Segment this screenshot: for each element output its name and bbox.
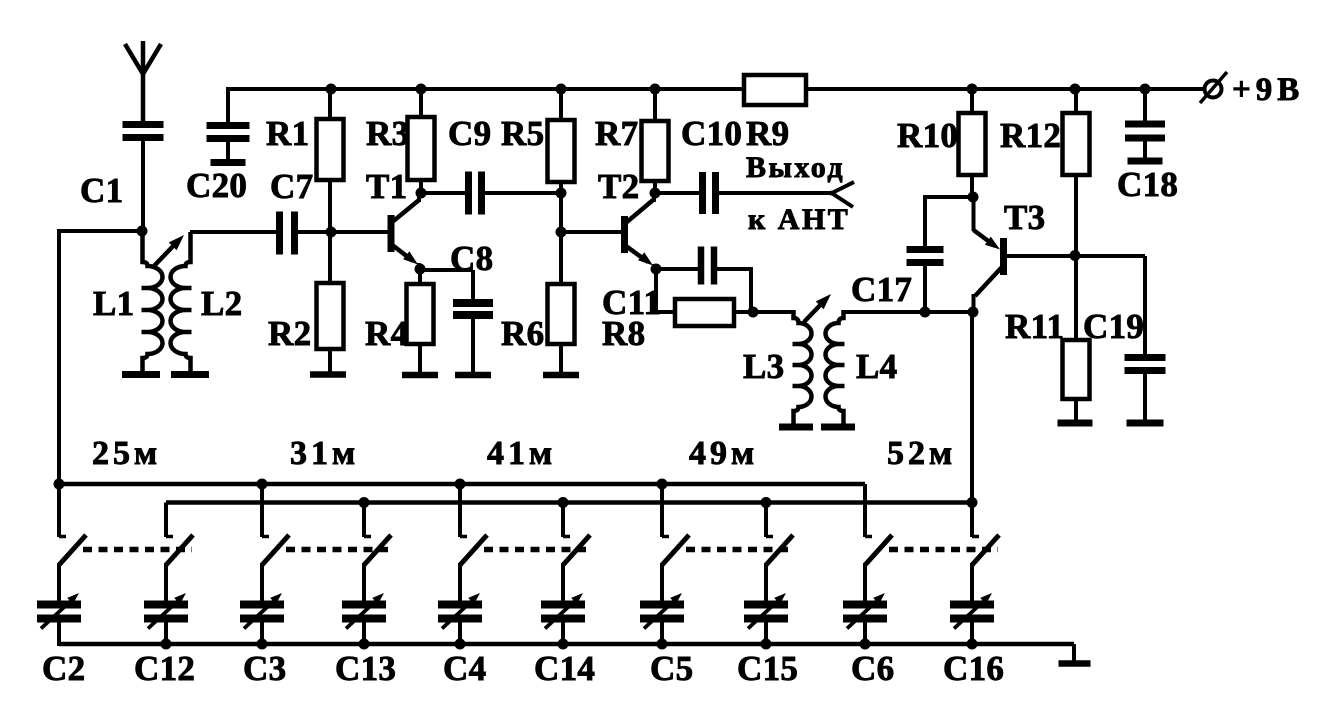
junction T3 base R12 R11 — [1070, 250, 1081, 261]
svg-text:C1: C1 — [80, 171, 123, 210]
svg-text:49м: 49м — [689, 435, 758, 472]
band bus 2 — [166, 500, 972, 505]
junction T1 collector C9 — [416, 188, 427, 199]
junction bottom bus x=460 — [455, 639, 466, 650]
svg-text:C10: C10 — [681, 114, 742, 153]
resistor R8 — [654, 267, 658, 312]
switch S1b and variable capacitor C12 — [164, 503, 168, 538]
junction T3 collector bottom — [968, 307, 979, 318]
transistor T3 — [1000, 238, 1007, 275]
junction bus1 x=662 — [657, 479, 668, 490]
switch S4a and variable capacitor C5 — [660, 484, 664, 537]
resistor R7 — [653, 89, 657, 121]
svg-text:C15: C15 — [737, 649, 798, 688]
svg-text:к АНТ: к АНТ — [748, 203, 850, 236]
junction rail R10 — [967, 84, 978, 95]
resistor R3 — [419, 89, 423, 117]
svg-text:R11: R11 — [1005, 307, 1064, 346]
svg-text:R6: R6 — [501, 314, 544, 353]
junction bus2 x=972 — [967, 497, 978, 508]
junction C9 R5 — [556, 188, 567, 199]
wire C17 top to T3 emitter node — [925, 195, 973, 199]
svg-text:T3: T3 — [1004, 198, 1045, 237]
capacitor C11 — [656, 267, 699, 271]
resistor R11 — [1074, 256, 1078, 340]
svg-text:R5: R5 — [501, 114, 544, 153]
svg-text:R2: R2 — [268, 314, 311, 353]
band bus 1 — [59, 482, 865, 487]
svg-text:C16: C16 — [943, 649, 1004, 688]
resistor R4 — [418, 269, 422, 284]
switch gang link S4 — [686, 547, 792, 553]
junction R10 C17 T3 emitter — [968, 192, 979, 203]
output fork to antenna — [830, 182, 854, 194]
bottom bus — [59, 642, 1074, 647]
junction rail R12 — [1070, 84, 1081, 95]
svg-text:L1: L1 — [93, 284, 134, 323]
junction C7 R1 R2 T1 — [326, 227, 337, 238]
coil L3 — [793, 310, 812, 424]
svg-text:C9: C9 — [448, 114, 491, 153]
svg-text:R7: R7 — [595, 114, 638, 153]
svg-text:R10: R10 — [897, 116, 958, 155]
svg-text:+9В: +9В — [1232, 72, 1304, 108]
junction rail C18 — [1140, 84, 1151, 95]
svg-text:R1: R1 — [266, 114, 309, 153]
wire L4 to T3 collector node — [843, 310, 973, 314]
wire R8 to L3 — [753, 310, 794, 314]
junction bottom bus x=563 — [558, 639, 569, 650]
switch S1a and variable capacitor C2 — [57, 484, 61, 537]
svg-text:C6: C6 — [851, 649, 894, 688]
capacitor C19 — [1075, 254, 1145, 258]
switch S5b and variable capacitor C16 — [970, 503, 974, 538]
switch gang link S1 — [83, 547, 192, 553]
resistor R10 — [970, 89, 974, 113]
coil L2 — [171, 232, 192, 372]
wire L2 to C7 — [190, 230, 200, 234]
svg-text:R3: R3 — [366, 114, 409, 153]
capacitor C20 — [226, 87, 230, 123]
svg-text:R9: R9 — [746, 114, 789, 153]
svg-text:L3: L3 — [743, 347, 784, 386]
svg-text:C14: C14 — [534, 649, 595, 688]
antenna W1 — [141, 41, 146, 121]
svg-text:Выход: Выход — [746, 151, 845, 184]
svg-text:C5: C5 — [650, 649, 693, 688]
svg-text:31м: 31м — [290, 435, 359, 472]
junction bus1 x=262 — [257, 479, 268, 490]
capacitor C10 — [655, 191, 700, 195]
junction T2 emitter — [651, 264, 662, 275]
svg-text:C4: C4 — [443, 649, 486, 688]
junction bottom bus x=166 — [161, 639, 172, 650]
svg-text:C8: C8 — [450, 239, 493, 278]
switch S5a and variable capacitor C6 — [863, 484, 867, 537]
capacitor C18 — [1143, 89, 1147, 122]
svg-text:52м: 52м — [887, 435, 956, 472]
junction rail R3 — [416, 84, 427, 95]
switch gang link S5 — [889, 547, 998, 553]
svg-text:C20: C20 — [186, 166, 247, 205]
wire node A to left rail — [57, 229, 142, 233]
terminal +9V — [1205, 81, 1222, 98]
junction bus2 x=563 — [558, 497, 569, 508]
svg-text:C2: C2 — [42, 649, 85, 688]
resistor R1 — [328, 89, 332, 119]
resistor R2 — [328, 232, 332, 283]
junction rail R1 — [326, 84, 337, 95]
capacitor C1 — [123, 121, 164, 128]
svg-text:L2: L2 — [201, 284, 242, 323]
svg-text:C3: C3 — [243, 649, 286, 688]
capacitor C9 — [421, 191, 466, 195]
junction bus1 x=59 — [54, 479, 65, 490]
resistor R5 — [559, 89, 563, 120]
junction bottom bus x=972 — [967, 639, 978, 650]
junction C17 bottom — [920, 307, 931, 318]
switch S2b and variable capacitor C13 — [362, 503, 366, 538]
L3 L4 tuning arrow — [804, 299, 826, 322]
svg-text:R4: R4 — [365, 314, 408, 353]
svg-text:C17: C17 — [851, 270, 912, 309]
junction R8 C11 L3 — [748, 307, 759, 318]
coil L1 — [142, 231, 163, 372]
transistor T1 — [388, 215, 395, 252]
svg-text:25м: 25м — [92, 435, 161, 472]
switch gang link S3 — [484, 547, 589, 553]
svg-text:L4: L4 — [856, 347, 897, 386]
capacitor C17 — [923, 195, 927, 247]
svg-text:T1: T1 — [366, 167, 407, 206]
switch S2a and variable capacitor C3 — [260, 484, 264, 537]
svg-text:R8: R8 — [602, 314, 645, 353]
svg-text:C19: C19 — [1083, 307, 1144, 346]
junction bottom bus x=662 — [657, 639, 668, 650]
junction R5 R6 T2 base — [556, 227, 567, 238]
junction bus1 x=460 — [455, 479, 466, 490]
switch S4b and variable capacitor C15 — [764, 503, 768, 538]
junction bottom bus x=262 — [257, 639, 268, 650]
node A junction — [137, 226, 148, 237]
wire T3 node down to band bus2 — [970, 312, 974, 504]
svg-text:C18: C18 — [1117, 165, 1178, 204]
L1 L2 tuning arrow — [154, 240, 179, 266]
svg-text:R12: R12 — [1000, 116, 1061, 155]
junction bus2 x=766 — [761, 497, 772, 508]
wire left vertical down to band bus — [57, 229, 61, 486]
junction bottom bus x=766 — [761, 639, 772, 650]
junction rail R7 — [650, 84, 661, 95]
junction bus2 x=364 — [359, 497, 370, 508]
coil L4 — [826, 310, 845, 424]
resistor R6 — [559, 232, 563, 284]
svg-text:C13: C13 — [335, 649, 396, 688]
power rail +9V — [228, 87, 746, 91]
switch S3a and variable capacitor C4 — [458, 484, 462, 537]
capacitor C8 — [420, 268, 473, 272]
capacitor C7 — [190, 230, 277, 234]
switch gang link S2 — [286, 547, 390, 553]
junction T2 collector C10 — [650, 188, 661, 199]
svg-text:C12: C12 — [134, 649, 195, 688]
junction bottom bus x=364 — [359, 639, 370, 650]
svg-text:C7: C7 — [270, 167, 313, 206]
resistor R12 — [1074, 89, 1078, 113]
resistor R9 — [744, 75, 806, 105]
transistor T2 — [621, 216, 628, 253]
svg-text:41м: 41м — [487, 435, 556, 472]
junction T1 emitter — [415, 264, 426, 275]
junction bottom bus x=865 — [860, 639, 871, 650]
junction rail R5 — [556, 84, 567, 95]
svg-text:T2: T2 — [598, 167, 639, 206]
switch S3b and variable capacitor C14 — [561, 503, 565, 538]
